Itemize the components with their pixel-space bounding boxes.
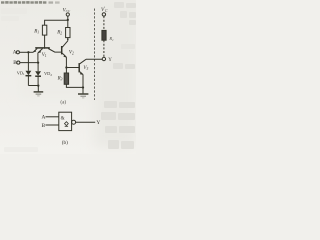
svg-text:R1: R1 xyxy=(33,29,39,34)
paper background xyxy=(0,0,136,154)
svg-text:V3: V3 xyxy=(83,66,88,71)
collector of V2 xyxy=(62,41,68,48)
power terminal V'c (external) xyxy=(101,6,108,16)
gate input B xyxy=(42,123,59,129)
resistor R3 xyxy=(57,73,69,84)
collector of V1 xyxy=(48,49,61,53)
node: emitter/rail junction xyxy=(82,86,84,88)
input terminal B xyxy=(13,60,20,66)
wire: junction to V3 base xyxy=(66,67,78,69)
gate input A xyxy=(42,115,59,121)
svg-text:VD1: VD1 xyxy=(17,70,25,76)
resistor Rc (external pull-up) xyxy=(102,30,114,42)
svg-text:V1: V1 xyxy=(42,53,47,58)
svg-text:Y: Y xyxy=(108,58,112,63)
wire: gate output to Y xyxy=(76,121,96,123)
resistor R2 xyxy=(56,28,70,38)
caption (cropped page text at top) xyxy=(1,1,60,4)
emitter of V2 xyxy=(62,53,66,57)
wire: V3 emitter to ground xyxy=(82,75,84,94)
svg-text:(b): (b) xyxy=(62,139,68,146)
svg-text:VCC: VCC xyxy=(63,8,71,13)
open-collector output symbol (diamond) xyxy=(65,122,69,126)
wire: R2 to V2 collector corner xyxy=(67,38,69,41)
wire (dashed): Rc to Y xyxy=(103,40,105,57)
wire: R3 bottom to ground rail xyxy=(66,84,83,87)
output terminal Y xyxy=(102,57,112,63)
node on A wire (VD1 tap) xyxy=(27,51,29,53)
wire: B to emitter 2 xyxy=(20,62,38,64)
wire: R1 to V1 base xyxy=(44,35,46,48)
power terminal Vcc xyxy=(63,8,71,16)
transistor V3 xyxy=(79,59,88,75)
emitter 2 of V1 xyxy=(38,49,43,53)
svg-text:VD2: VD2 xyxy=(44,71,52,77)
svg-text:R2: R2 xyxy=(56,30,62,35)
svg-text:R3: R3 xyxy=(57,76,63,81)
svg-text:A: A xyxy=(42,115,46,121)
ground (output stage) xyxy=(78,94,88,98)
wire: V3 collector to output Y xyxy=(86,58,102,60)
faint print ghosts (margins) xyxy=(1,2,136,152)
svg-text:Y: Y xyxy=(96,120,100,126)
wire: Vcc down to junction xyxy=(67,16,69,20)
dashed boundary (package edge) xyxy=(94,9,96,101)
node at ground stem xyxy=(37,84,39,86)
diode VD2 xyxy=(35,63,52,86)
svg-text:(a): (a) xyxy=(60,99,66,106)
wire: V2 emitter down to junction xyxy=(65,57,67,73)
svg-text:V2: V2 xyxy=(69,51,74,56)
emitter 1 of V1 xyxy=(33,49,37,53)
input terminal A xyxy=(13,50,20,56)
node: V2 emitter / R3 / V3 base junction xyxy=(65,66,67,68)
node: Vcc rail junction xyxy=(67,19,69,21)
wire: diode common to ground stem xyxy=(28,86,38,92)
transistor V2 xyxy=(62,41,74,58)
wire: top rail to R1 xyxy=(45,20,68,25)
svg-text:&: & xyxy=(61,115,65,121)
transistor V1 (multi-emitter input) xyxy=(33,47,62,62)
wire (dashed): V'c to Rc xyxy=(103,16,105,30)
logic gate symbol (b): NAND box xyxy=(59,112,72,130)
node on B wire (VD2 tap) xyxy=(37,61,39,63)
wire: Vcc junction down to R2 xyxy=(67,20,69,27)
wire: A to emitter 1 xyxy=(20,51,34,53)
svg-text:B: B xyxy=(42,123,46,129)
diode VD1 xyxy=(17,52,32,85)
resistor R1 xyxy=(33,25,47,35)
ground (input diodes) xyxy=(34,92,44,96)
gate output bubble xyxy=(72,120,76,124)
collector of V3 xyxy=(80,59,86,64)
emitter of V3 xyxy=(80,72,83,75)
